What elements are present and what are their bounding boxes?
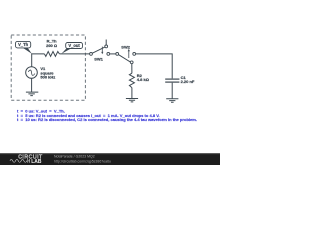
svg-text:SW2: SW2 [121,44,130,49]
resistor R2 [129,73,134,87]
wire SW2 throw to R2 [131,64,133,73]
svg-text:2.20 nF: 2.20 nF [181,79,195,84]
wire C1 bottom [171,83,173,99]
svg-text:t = 10 us: R2 is disconnecte: t = 10 us: R2 is disconnected, C2 is con… [17,117,197,122]
svg-text:http://circuitlab.com/c/qp5s38: http://circuitlab.com/c/qp5s3867ea6u [54,159,111,163]
svg-text:V_Th: V_Th [18,42,29,47]
R_Th value label [46,39,58,48]
wire V1 bottom [31,78,33,92]
svg-text:500 kHz: 500 kHz [40,74,55,79]
svg-text:SW1: SW1 [94,56,103,61]
switch SW1 [90,40,110,56]
svg-text:NotaParade / G2023 MQ2: NotaParade / G2023 MQ2 [54,154,95,158]
wire SW2 to C1 corner [136,54,173,79]
switch SW2 [116,49,136,64]
svg-text:200 Ω: 200 Ω [46,43,58,48]
annotation note line 3 [17,117,197,122]
C1 value label [181,75,195,84]
ground below C1 [166,99,178,102]
SW2 label [121,44,130,49]
capacitor C1 [165,79,179,82]
voltage source V1 [26,67,38,79]
annotation note line 1 [17,108,65,113]
SW1 label [94,56,103,61]
wire R2 bottom [131,88,133,99]
R2 value label [137,73,150,82]
CircuitLab logo [10,154,43,165]
wire V1 top to node [32,54,45,67]
thevenin dashed box [11,35,85,100]
ground below V1 [26,92,38,96]
svg-text:V_out: V_out [68,43,80,48]
wire R_Th to SW1 [59,53,89,55]
svg-text:4.8 kΩ: 4.8 kΩ [137,77,150,82]
ground below R2 [126,99,138,102]
node label V_Th [16,41,32,53]
node label V_out [61,43,82,54]
V1 value label [40,66,55,79]
resistor R_Th [44,52,59,57]
annotation note line 2 [17,113,160,118]
svg-text:LAB: LAB [31,159,42,165]
wire SW1 to SW2 [110,53,116,55]
footer bar [0,153,220,165]
footer credit text [54,154,111,163]
